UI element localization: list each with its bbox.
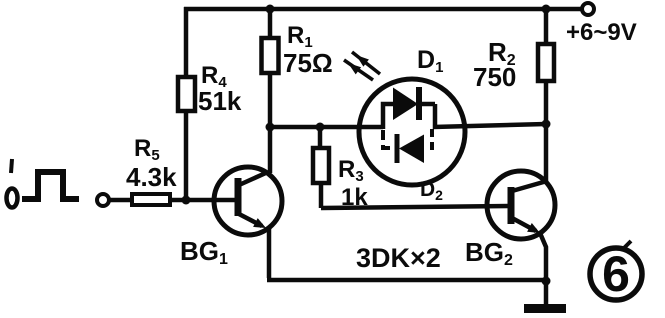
logic level 1 xyxy=(11,159,12,173)
light emission arrows xyxy=(344,52,380,80)
node junction ground xyxy=(542,277,551,286)
wire BG2 emitter down xyxy=(540,233,546,281)
svg-text:D2: D2 xyxy=(420,178,443,203)
terminal +6~9V xyxy=(582,3,594,15)
svg-text:6: 6 xyxy=(602,246,630,302)
wire mid node right segment xyxy=(433,124,546,127)
wire R5 to base node xyxy=(170,198,186,203)
LED pair D1 package circle xyxy=(359,79,465,185)
wire input terminal to R5 xyxy=(109,198,133,203)
svg-text:BG1: BG1 xyxy=(180,236,228,268)
resistor R5 xyxy=(132,194,170,205)
resistor R2 xyxy=(538,44,554,81)
node junction mid right xyxy=(542,120,551,129)
wire R3 to BG2 base xyxy=(321,206,509,208)
svg-text:BG2: BG2 xyxy=(465,237,513,269)
node junction BG1 base xyxy=(182,196,191,205)
svg-text:R5: R5 xyxy=(134,135,160,164)
logic level 0 xyxy=(7,189,18,208)
diode D1 top branch xyxy=(383,87,435,129)
pulse waveform xyxy=(22,172,79,199)
node junction mid left xyxy=(266,123,275,132)
wire BG1 base xyxy=(186,198,237,203)
resistor R1 xyxy=(262,38,279,73)
node junction top R2 xyxy=(542,5,551,14)
diode D2 bottom branch dashed xyxy=(383,129,432,163)
wire top supply rail xyxy=(184,7,582,12)
svg-text:1k: 1k xyxy=(341,184,368,211)
wire BG1 emitter down and bottom rail xyxy=(267,226,546,280)
svg-text:51k: 51k xyxy=(198,86,242,116)
node junction R3 top xyxy=(316,123,325,132)
svg-text:4.3k: 4.3k xyxy=(126,162,177,192)
resistor R3 xyxy=(313,148,329,183)
svg-text:R1: R1 xyxy=(287,22,313,51)
transistor Q BG1 xyxy=(214,167,282,235)
wire R3 branch xyxy=(320,127,321,208)
resistor R4 xyxy=(178,77,195,111)
transistor Q BG2 xyxy=(487,171,555,239)
svg-text:3DK×2: 3DK×2 xyxy=(356,243,441,273)
svg-text:R3: R3 xyxy=(338,156,364,185)
svg-text:75Ω: 75Ω xyxy=(283,48,333,78)
wire R4 branch vertical xyxy=(184,7,189,200)
wire R2 branch vertical xyxy=(544,7,549,184)
terminal input xyxy=(97,194,109,206)
wire mid node left segment xyxy=(270,125,383,130)
svg-text:750: 750 xyxy=(473,62,516,92)
node junction top R1 xyxy=(266,5,275,14)
svg-text:D1: D1 xyxy=(417,46,443,76)
figure number 6 circle xyxy=(590,241,642,300)
wire ground stub xyxy=(544,281,549,304)
svg-text:+6~9V: +6~9V xyxy=(566,19,637,46)
wire R1/collector branch vertical xyxy=(268,7,273,173)
ground xyxy=(524,304,566,313)
